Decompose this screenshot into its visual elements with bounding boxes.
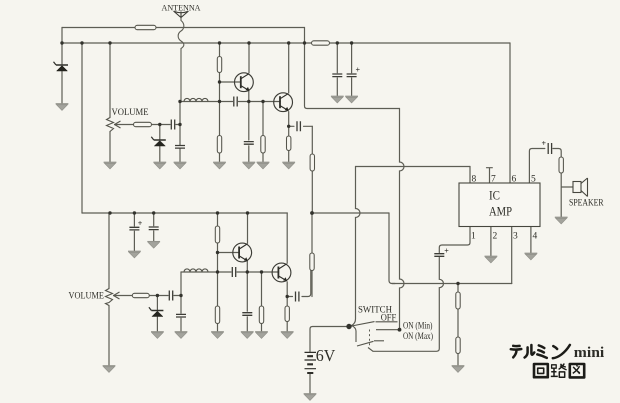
node C8 junction (133, 211, 136, 214)
resistor R6 tank ground (261, 136, 265, 154)
ground under VR2 (103, 366, 116, 373)
svg-text:VOLUME: VOLUME (69, 291, 105, 301)
wire lower tank column x=181 (180, 272, 182, 332)
resistor R9 mixer lower (310, 253, 314, 271)
svg-text:+: + (444, 247, 449, 256)
ground under C6 (242, 162, 255, 169)
svg-text:+: + (356, 66, 361, 75)
capacitor C7 Q2 coupling (297, 121, 300, 131)
node rail link junction (80, 41, 83, 44)
wire Q1 emitter (248, 91, 250, 102)
wire Q1 bypass cap column x=248.8 (248, 102, 250, 163)
diode D2 volume1 (151, 137, 166, 146)
wire rail B power (62,43)-(510,43) (62, 42, 510, 44)
ground under C9 (147, 242, 160, 249)
wire pot1 column x=110 (109, 43, 111, 162)
antenna symbol and coupling coil (174, 11, 189, 102)
ground under C5 (174, 162, 187, 169)
node R4 top junction (218, 41, 221, 44)
capacitor C10 series tank2 (232, 267, 235, 277)
capacitor C15 output electrolytic (542, 139, 552, 154)
svg-text:ON (Max): ON (Max) (403, 331, 433, 341)
capacitor C9 lower rail bypass (149, 227, 159, 230)
potentiometer VR2 (106, 289, 120, 306)
svg-text:4: 4 (533, 232, 538, 242)
resistor R13 Q3 tank ground (259, 306, 263, 324)
ground under R16 (452, 366, 465, 373)
svg-text:7: 7 (491, 175, 496, 185)
ground under VR1 (104, 162, 117, 169)
resistor R11 divider2 bottom (215, 306, 219, 324)
wire rail link x=82 railB to lower rail (81, 43, 83, 213)
diode D3 volume2 (149, 307, 164, 316)
node R6 junction (261, 100, 264, 103)
wire Q4 emitter column (286, 282, 288, 332)
node D3 junction (156, 294, 159, 297)
inductor L2 lower tank coil (184, 269, 208, 272)
node Q1 collector junction (247, 41, 250, 44)
wire pin3 stub (511, 227, 513, 284)
ground under R6 (257, 162, 270, 169)
ground under R14 (281, 332, 294, 339)
wire pin4 column (530, 227, 532, 254)
wire battery feed (310, 327, 348, 352)
capacitor C11 series volume2 (169, 291, 172, 301)
wire lower rail y=213 (82, 212, 287, 214)
node VR2 top junction (108, 211, 111, 214)
wire switch feed column x=355.5 with hop (352, 167, 361, 326)
transistor Q2 (274, 93, 293, 112)
resistor R15 pin3 divider upper (456, 292, 460, 309)
capacitor C2 electrolytic (347, 74, 357, 77)
wire Q3 bypass cap column x=247.3 (246, 272, 248, 332)
title line2 kanji kairozu (534, 364, 584, 378)
node Q3 base junction (216, 251, 219, 254)
wire speaker column x=561.2 (561, 173, 573, 217)
node VR1 top junction (108, 41, 111, 44)
resistor R2 on power line (312, 41, 330, 45)
node ON(Min) contact junction (398, 328, 402, 332)
wire antenna tank column x=180 (179, 102, 181, 163)
wire pot2 column x=109 (108, 213, 110, 366)
wire emitter R column x=263 (262, 102, 264, 163)
title line1 katakana te-ru-mi-n + mini (511, 345, 570, 358)
wire Q3 bypass R column x=261.5 (261, 272, 263, 332)
node tank R5 junction (218, 100, 221, 103)
wire ON(Min) feed x=399.5 with hops (400, 109, 405, 330)
wire pin7 stub (487, 168, 493, 183)
resistor R4 divider top (217, 57, 221, 73)
node C9 junction (152, 211, 155, 214)
potentiometer VR1 (107, 118, 121, 132)
svg-text:5: 5 (531, 175, 536, 185)
svg-text:SPEAKER: SPEAKER (569, 198, 604, 208)
svg-text:6V: 6V (316, 346, 336, 365)
diode D1 antenna (54, 62, 69, 71)
svg-text:mini: mini (574, 345, 605, 361)
wire divider column x=219.5 (219, 43, 221, 162)
wire Q1 collector (248, 43, 250, 73)
capacitor C13 Q4 coupling (296, 292, 299, 302)
ground under C2 (345, 96, 358, 103)
wire mixer junction horizontal y=213 (312, 212, 389, 214)
wire pin1 path (373, 227, 470, 352)
ground under speaker (555, 217, 568, 224)
wire diode3 branch x=157.4 (156, 296, 158, 332)
resistor R14 Q4 emitter (285, 306, 289, 322)
wire Q4 coupling y=296.5 (287, 271, 311, 297)
ground under D2 (153, 162, 166, 169)
node C1 junction (336, 41, 339, 44)
node tank antenna junction (178, 100, 181, 103)
capacitor C12 lower tank bypass (176, 314, 186, 317)
wire upper tank y=101.5 (180, 101, 280, 103)
capacitor C1 shunt (332, 74, 342, 77)
svg-text:+: + (542, 139, 547, 148)
wire pin8 stub (469, 167, 471, 184)
resistor R10 divider2 top (215, 226, 219, 243)
wire Q4 collector (286, 213, 288, 263)
node Q2 collector junction (287, 41, 290, 44)
wire divider3 column x=458 (457, 284, 459, 366)
node Q3 collector junction (246, 211, 249, 214)
node mixer junction (310, 211, 314, 215)
svg-text:1: 1 (471, 232, 476, 242)
node tank2 R11 junction (216, 270, 219, 273)
ground under R11 (211, 332, 224, 339)
wire pin8 feed y=166.5 (356, 166, 471, 168)
node R15 top junction (456, 282, 459, 285)
wire Q3 base y=252.5 (218, 252, 240, 254)
wire lower rail cap column x=153.7 (153, 213, 155, 241)
svg-text:ANTENNA: ANTENNA (162, 3, 202, 13)
ground under R5 (213, 162, 226, 169)
wire divider2 column x=217.5 (217, 213, 219, 332)
capacitor C14 pin1 electrolytic (434, 254, 444, 257)
ground pin 4 (525, 253, 538, 260)
node Q1 emitter junction (247, 100, 250, 103)
svg-text:AMP: AMP (489, 205, 512, 219)
node power feed junction (303, 41, 306, 44)
resistor R5 divider bottom (217, 136, 221, 154)
node Q2 emitter junction (287, 125, 290, 128)
svg-text:3: 3 (513, 232, 518, 242)
wire mixer to pin3 column x=389 (389, 213, 395, 284)
wire pin6 column x=510 (509, 43, 511, 183)
IC U1 amplifier box (459, 183, 540, 227)
wire volume2 line y=295.5 (114, 295, 182, 297)
resistor R16 pin3 divider lower (456, 337, 460, 354)
ground under R13 (255, 332, 268, 339)
inductor L1 upper tank coil (184, 98, 208, 101)
node R13 junction (260, 270, 263, 273)
ground pin 2 (485, 256, 498, 263)
wire shunt cap column x=337.3 (336, 43, 338, 96)
transistor Q3 (233, 243, 252, 262)
wire osc1 power feed (304.5,27.5)-(304.5,108.5)-(399.5,108.5) (305, 28, 400, 109)
svg-text:IC: IC (489, 189, 500, 203)
resistor R1 on rail A (135, 25, 156, 29)
resistor R3 volume1 line (134, 122, 152, 126)
ground under C12 (175, 332, 188, 339)
transistor Q1 (235, 73, 254, 92)
ground under C8 (128, 251, 141, 258)
svg-text:8: 8 (472, 175, 477, 185)
node rail B left junction (60, 41, 63, 44)
wire Q2 collector (288, 43, 290, 93)
wire battery to ground (309, 374, 311, 394)
battery BT1 6V (305, 352, 317, 373)
wire mixer column x=312 (311, 126, 313, 296)
wire left diode branch x=62 (61, 28, 63, 104)
wire diode2 branch x=159.8 (159, 125, 161, 163)
wire Q2 emitter column (288, 112, 290, 162)
wire pin3 horizontal y=283.5 with hop over x=439.3 (392, 283, 512, 285)
node switch pole junction (346, 324, 351, 329)
wire pin2 column (490, 227, 492, 257)
capacitor C16 Q3 emitter bypass (242, 313, 252, 316)
node D2 junction (158, 123, 161, 126)
wire shunt ecap column x=351.6 (351, 43, 353, 96)
resistor R17 speaker (559, 157, 563, 173)
ground under R7 (282, 162, 295, 169)
wire lower tank y=272 (181, 271, 279, 273)
wire Q1 base y=82 (220, 81, 242, 83)
wire Q3 collector (247, 213, 249, 243)
switch SW1 (349, 322, 400, 352)
capacitor C5 antenna line bypass (175, 146, 185, 149)
node Q4 emitter junction (286, 295, 289, 298)
transistor Q4 (272, 263, 291, 282)
resistor R8 mixer upper (310, 154, 314, 171)
svg-text:VOLUME: VOLUME (112, 107, 149, 117)
ground under D3 (151, 332, 164, 339)
speaker SP1 (573, 178, 588, 197)
node volume1 C5 junction (178, 123, 181, 126)
capacitor C4 series volume1 (171, 120, 174, 130)
resistor R7 Q2 emitter (287, 136, 291, 151)
ground under C1 (331, 96, 344, 103)
wire Q3 emitter (246, 262, 248, 273)
node Q3 emitter junction (246, 270, 249, 273)
ground under C16 (241, 332, 254, 339)
capacitor C3 series tank (234, 97, 237, 107)
capacitor C8 lower rail electrolytic (129, 227, 139, 230)
capacitor C6 Q1 emitter bypass (244, 142, 254, 145)
wire rail A top (62,27.5)-(304.5,27.5) (62, 27, 305, 29)
ground under antenna diode D1 (56, 104, 69, 111)
node C2 junction (350, 41, 353, 44)
wire lower rail ecap column x=134.4 (133, 213, 135, 251)
node volume2 C12 junction (179, 294, 182, 297)
wire Q2 coupling y=126.3 (289, 125, 313, 127)
wire volume1 line y=124.5 (115, 124, 181, 126)
svg-text:6: 6 (512, 175, 517, 185)
node R10 top junction (216, 211, 219, 214)
svg-text:2: 2 (493, 232, 498, 242)
node Q1 base junction (218, 80, 221, 83)
svg-text:+: + (138, 219, 143, 228)
wire pin5 to cap (529, 149, 561, 184)
resistor R12 volume2 line (132, 293, 149, 297)
svg-text:OFF: OFF (381, 313, 397, 323)
ground battery (304, 394, 317, 401)
svg-text:ON (Min): ON (Min) (403, 320, 433, 330)
